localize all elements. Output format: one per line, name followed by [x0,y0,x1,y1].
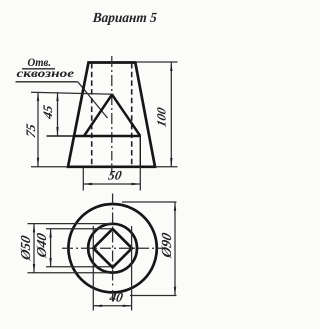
dimension Ø40 bottom arrow [49,258,51,267]
leader line to hole edge [78,82,108,118]
dimension 75 line [37,92,39,166]
hole bottom edge thick part [74,135,140,138]
top edge extension right [135,61,177,63]
dimension Ø90 bottom arrow [174,287,176,296]
svg-text:45: 45 [40,103,55,121]
hidden edge of square hole (left) dashed [91,63,93,166]
Ø40 extension bottom [46,266,110,268]
Ø50 extension bottom [28,272,111,274]
plan view vertical centerline [112,194,114,288]
dimension 45 bottom arrow [56,127,58,136]
svg-text:Ø90: Ø90 [159,231,175,260]
Ø50 extension top [28,223,113,225]
front centerline bottom dash [111,163,113,174]
dimension 40 extension right [131,226,133,311]
dimension Ø90 top arrow [174,202,176,211]
plan vertical centerline bottom dash [112,290,114,302]
svg-text:Ø50: Ø50 [19,234,34,262]
note underline 2 [16,81,78,83]
hidden edge of square hole (right) dashed [131,63,133,166]
svg-text:Ø40: Ø40 [35,232,50,260]
dimension 40 right arrow [123,305,132,307]
plan view horizontal centerline [62,247,163,249]
svg-text:сквозное: сквозное [17,66,75,80]
dimension 45 line [57,92,59,136]
plan view: top face circle Ø50 [88,224,137,273]
dimension 100 line [170,62,172,167]
bottom edge extension right [155,166,178,168]
Ø90 extension top [122,201,177,203]
dimension 50 line [83,183,140,185]
dimension 50 extension left [82,168,84,191]
dimension 100 bottom arrow [170,158,172,167]
hole bottom edge line [47,135,141,137]
front view: cone frustum outline [68,63,155,167]
dimension 75 top arrow [37,92,39,101]
svg-text:100: 100 [155,105,169,128]
plan view: outer circle Ø90 [68,204,156,292]
Ø90 extension bottom [130,295,177,297]
dimension Ø50 line [33,224,35,273]
hole intersection triangle left side [84,95,112,137]
dimension Ø40 top arrow [49,229,51,238]
dimension Ø40 line [50,229,52,267]
svg-text:50: 50 [107,167,123,182]
apex level extension line [31,92,114,94]
Ø40 extension top [46,228,112,230]
plan view: square hole (diamond) [93,229,132,268]
dimension 40 left arrow [93,305,102,307]
dimension 45 top arrow [56,92,58,101]
svg-text:40: 40 [107,289,124,304]
dimension 50 right arrow [132,183,141,185]
hole intersection triangle right side [112,95,140,137]
bottom edge extension left [31,166,68,168]
dimension 75 bottom arrow [37,158,39,167]
dimension 50 left arrow [83,183,92,185]
svg-text:75: 75 [23,122,38,139]
dimension 50 extension right [139,167,141,191]
front view vertical centerline [111,56,113,161]
svg-text:Вариант 5: Вариант 5 [91,11,157,26]
dimension Ø90 line [174,202,176,296]
dimension Ø50 top arrow [33,224,35,233]
dimension 100 top arrow [170,62,172,71]
note underline 1 [22,68,55,70]
dimension Ø50 bottom arrow [33,264,35,273]
dimension 40 line [93,305,131,307]
dimension 40 extension left [92,226,94,311]
vertical edge under hole right corner [139,136,141,167]
